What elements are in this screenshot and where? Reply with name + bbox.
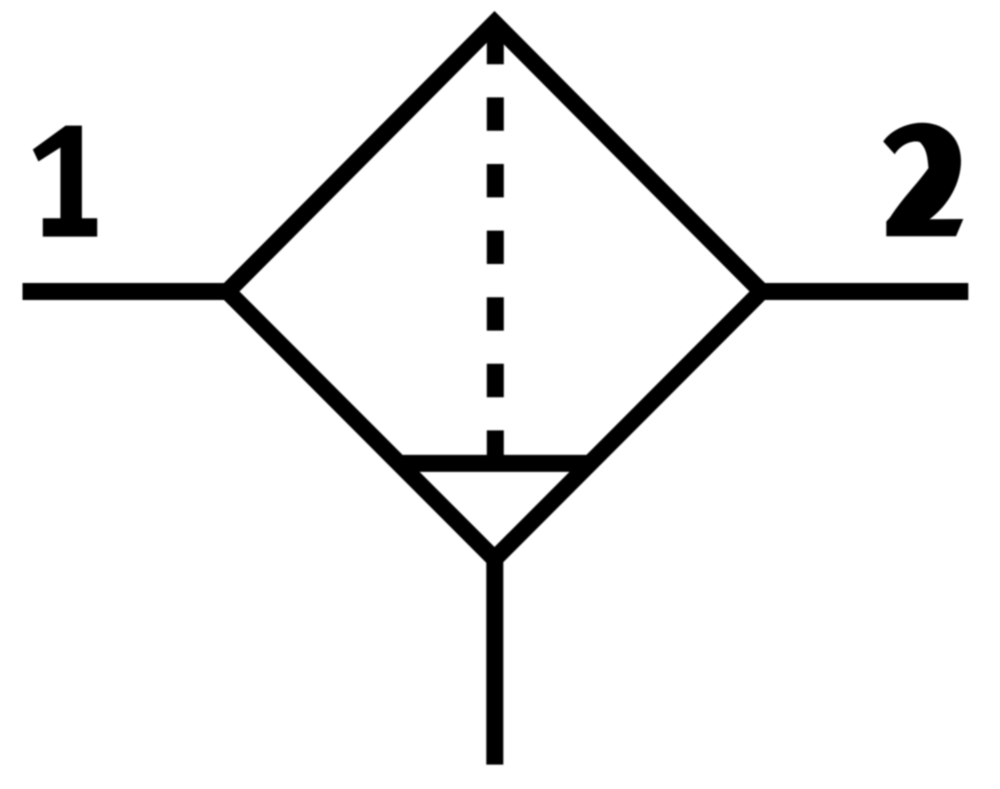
port label 1 <box>33 126 97 237</box>
filter element (dashed centerline) <box>487 31 504 462</box>
drain outlet wire (bottom lead) <box>486 550 503 765</box>
wire port 1 (left lead) <box>23 283 234 300</box>
port label 2 <box>883 123 963 237</box>
drain separator bar <box>403 455 591 472</box>
wire port 2 (right lead) <box>757 283 969 300</box>
filter body F1 (diamond) <box>228 23 762 559</box>
